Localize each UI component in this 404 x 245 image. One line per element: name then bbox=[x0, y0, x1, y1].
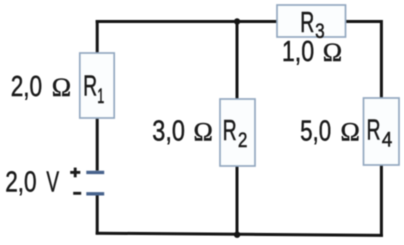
wire top horizontal left segment bbox=[96, 20, 277, 23]
battery + symbol bbox=[70, 168, 80, 178]
svg-text:1: 1 bbox=[97, 83, 104, 107]
wire middle vertical top bbox=[236, 22, 239, 99]
svg-text:5,0: 5,0 bbox=[300, 116, 331, 147]
resistor R4 bbox=[364, 98, 400, 165]
wire bottom horizontal bbox=[96, 233, 383, 235]
svg-text:V: V bbox=[46, 167, 59, 199]
value label 2,0 ohm for R1 bbox=[11, 69, 71, 102]
value label 5,0 ohm for R4 bbox=[300, 116, 360, 147]
svg-text:Ω: Ω bbox=[341, 117, 360, 146]
svg-text:R: R bbox=[223, 116, 237, 148]
svg-text:Ω: Ω bbox=[323, 38, 342, 67]
svg-text:R: R bbox=[83, 71, 97, 103]
resistor R3 bbox=[277, 5, 346, 43]
wire left vertical middle (R1 to battery) bbox=[96, 118, 99, 171]
resistor R1 bbox=[80, 53, 114, 118]
svg-text:Ω: Ω bbox=[194, 117, 213, 146]
wire left vertical top bbox=[96, 20, 99, 53]
svg-text:2,0: 2,0 bbox=[5, 165, 36, 198]
battery V1 plate - (bottom) bbox=[86, 192, 104, 195]
svg-text:1,0: 1,0 bbox=[282, 34, 314, 67]
resistor R2 bbox=[220, 99, 255, 166]
svg-text:4: 4 bbox=[382, 129, 393, 152]
value label 2,0 V for battery bbox=[5, 165, 59, 199]
node junction bottom bbox=[234, 232, 240, 238]
value label 3,0 ohm for R2 bbox=[152, 114, 213, 147]
svg-text:2: 2 bbox=[238, 130, 248, 153]
svg-text:Ω: Ω bbox=[52, 73, 71, 102]
value label 1,0 ohm for R3 bbox=[282, 34, 342, 67]
wire left vertical bottom (battery to bottom) bbox=[96, 195, 99, 234]
wire top horizontal right segment with corner bbox=[346, 22, 382, 99]
node junction top bbox=[234, 18, 240, 24]
svg-text:R: R bbox=[367, 115, 381, 147]
svg-text:3,0: 3,0 bbox=[152, 114, 185, 147]
wire middle vertical bottom bbox=[236, 166, 239, 234]
wire right vertical bottom (R4 to bottom) bbox=[380, 165, 383, 237]
battery - symbol bbox=[73, 192, 81, 195]
battery V1 plate + (top) bbox=[86, 171, 104, 174]
svg-text:2,0: 2,0 bbox=[11, 69, 42, 102]
